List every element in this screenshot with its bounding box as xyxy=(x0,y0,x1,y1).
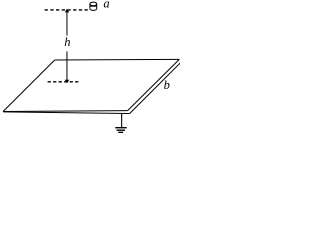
ground symbol xyxy=(115,128,126,133)
svg-text:h: h xyxy=(64,35,70,49)
small cylinder body a xyxy=(90,2,97,10)
right top edge xyxy=(128,59,180,110)
dimension line h (vertical, arrows both ends) xyxy=(66,11,68,81)
back edge xyxy=(55,58,180,61)
left edge xyxy=(3,60,55,112)
ground wire xyxy=(121,114,123,128)
front top edge xyxy=(3,110,128,113)
right bottom edge (thickness) xyxy=(130,63,181,114)
front bottom edge (thickness) xyxy=(3,112,129,114)
conducting plate b (slab) xyxy=(3,59,181,113)
svg-text:b: b xyxy=(164,78,170,92)
svg-text:a: a xyxy=(103,0,109,11)
arrowhead up xyxy=(65,9,69,13)
dashed projection line on plate xyxy=(48,81,79,83)
arrowhead down xyxy=(65,80,69,84)
dashed level line at charge height xyxy=(45,9,90,11)
